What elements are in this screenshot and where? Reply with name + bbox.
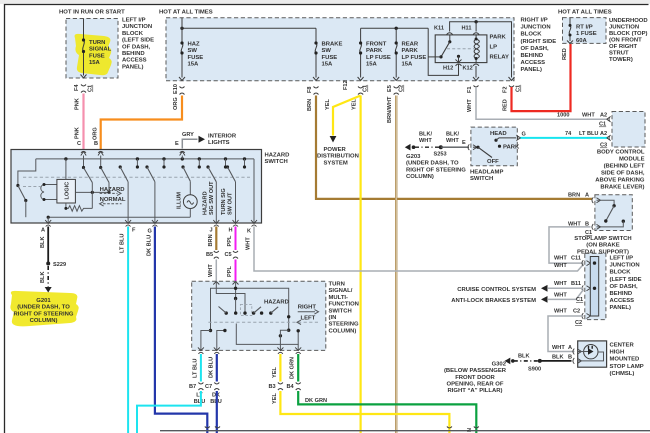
RT I/P 1 fuse 60A xyxy=(569,18,571,26)
svg-text:A: A xyxy=(568,345,572,351)
svg-text:N: N xyxy=(467,428,473,432)
wire LT BLU from B7 to bottom edge xyxy=(137,391,201,433)
wire YEL from B3 right and down to bottom edge xyxy=(280,391,449,433)
PPL internal tap xyxy=(235,281,237,298)
svg-text:A2: A2 xyxy=(600,131,607,137)
connector F2 / C1 xyxy=(509,86,514,88)
relay armature link xyxy=(428,56,441,58)
relay terminal H11 xyxy=(473,33,479,35)
svg-text:C3: C3 xyxy=(600,143,607,149)
junction block pin C2 connector xyxy=(582,313,591,319)
wire ORG from E10 to hazard switch pin B xyxy=(101,96,182,150)
hazard switch pin J xyxy=(213,220,219,227)
svg-text:LEFT: LEFT xyxy=(301,315,316,321)
arrow to cruise control system xyxy=(541,285,548,292)
connector B5 xyxy=(214,251,219,259)
svg-text:RIGHT OF STEERING: RIGHT OF STEERING xyxy=(406,167,466,173)
svg-text:FUNCTION: FUNCTION xyxy=(329,302,359,308)
resistor xyxy=(66,203,92,211)
arrow to interior lights xyxy=(199,136,206,143)
svg-text:BODY CONTROL: BODY CONTROL xyxy=(597,150,645,156)
svg-text:SIG SW OUT: SIG SW OUT xyxy=(209,181,215,215)
svg-text:TURN: TURN xyxy=(89,40,105,46)
svg-text:FUSE: FUSE xyxy=(188,55,204,61)
svg-text:RED: RED xyxy=(562,48,568,60)
svg-text:G302: G302 xyxy=(492,361,507,367)
headlamp switch pin G connector xyxy=(517,135,521,141)
svg-text:COLUMN): COLUMN) xyxy=(30,318,58,324)
svg-text:BLK: BLK xyxy=(518,354,530,360)
svg-text:LT BLU: LT BLU xyxy=(120,234,126,253)
hazard switch pin A xyxy=(45,220,51,227)
svg-text:MULTI-: MULTI- xyxy=(329,295,349,301)
svg-text:DISTRIBUTION: DISTRIBUTION xyxy=(317,154,359,160)
node H11 feed xyxy=(474,20,477,23)
svg-text:C: C xyxy=(77,141,81,147)
wire YEL main run down page xyxy=(360,96,362,433)
pin arrow RT fuse out xyxy=(567,41,573,44)
park lp relay box xyxy=(435,35,487,63)
switched park lamp feed rail xyxy=(361,27,429,29)
svg-text:B: B xyxy=(94,141,98,147)
underhood junction block dashed box xyxy=(563,18,607,44)
svg-text:C2: C2 xyxy=(573,309,580,315)
svg-text:G: G xyxy=(148,229,152,235)
svg-text:C1: C1 xyxy=(599,122,606,128)
svg-text:F2: F2 xyxy=(503,86,509,93)
DK GRN pin internal xyxy=(297,344,299,350)
svg-text:TURN SIG: TURN SIG xyxy=(221,188,227,215)
pin arrow rear park fuse out xyxy=(393,77,399,81)
wire BLK from CHMSL B to S900 xyxy=(540,360,572,362)
svg-text:OF DASH,: OF DASH, xyxy=(122,44,151,50)
svg-text:ILLUM: ILLUM xyxy=(177,192,183,209)
connector F1 xyxy=(474,86,479,88)
page margin strip xyxy=(0,0,650,4)
svg-text:ACCESS: ACCESS xyxy=(122,58,147,64)
svg-text:1 FUSE: 1 FUSE xyxy=(576,31,597,37)
svg-text:PARK: PARK xyxy=(402,48,419,54)
svg-text:74: 74 xyxy=(565,131,572,137)
hazard switch pin H xyxy=(233,220,239,227)
pin G switch contact (arm and fixed stub) xyxy=(145,165,148,168)
svg-text:15A: 15A xyxy=(366,62,378,68)
connector E10 xyxy=(180,87,185,95)
internal bus bar xyxy=(590,257,598,317)
svg-text:FUSE: FUSE xyxy=(322,55,338,61)
svg-text:LIGHTS: LIGHTS xyxy=(208,140,230,146)
WHT internal route xyxy=(216,281,245,313)
svg-text:STOP LAMP: STOP LAMP xyxy=(610,364,644,370)
splice S253 xyxy=(439,145,443,149)
svg-text:ACCESS: ACCESS xyxy=(521,60,546,66)
svg-text:BRAKE: BRAKE xyxy=(322,42,343,48)
wire GRY from hazard switch pin E to interior lights xyxy=(182,139,197,148)
hazard switch pin B xyxy=(98,151,103,155)
svg-text:C1: C1 xyxy=(516,85,522,92)
hazard switch pin E xyxy=(180,151,185,155)
svg-text:LOGIC: LOGIC xyxy=(65,182,71,200)
svg-text:C11: C11 xyxy=(571,256,581,262)
svg-text:DK GRN: DK GRN xyxy=(305,398,327,404)
relay actuator dashed line xyxy=(447,48,474,50)
svg-text:PNK: PNK xyxy=(75,127,81,139)
svg-text:OF DASH,: OF DASH, xyxy=(610,284,639,290)
wire BLK/WHT ground lead G203 to S253 (dash-dot) xyxy=(415,146,441,148)
wire WHT from B5 to turn signal switch xyxy=(215,260,217,282)
svg-text:OF DASH,: OF DASH, xyxy=(521,46,550,52)
svg-text:JUNCTION: JUNCTION xyxy=(609,25,639,31)
pin F switch contact (arm and fixed stub) xyxy=(119,165,122,168)
svg-text:(LEFT SIDE: (LEFT SIDE xyxy=(122,38,154,44)
headlamp switch common contact xyxy=(476,146,479,149)
svg-text:PARK: PARK xyxy=(490,35,507,41)
svg-text:RIGHT OF STEERING: RIGHT OF STEERING xyxy=(14,311,74,317)
turn signal switch pin DK BLU xyxy=(214,347,220,353)
svg-text:PPL: PPL xyxy=(227,235,233,246)
headlamp switch pin E connector xyxy=(468,144,477,150)
svg-text:G: G xyxy=(522,132,526,138)
svg-text:WHT: WHT xyxy=(246,237,252,250)
ILLUM lamp contact arm xyxy=(181,165,184,168)
relay coil xyxy=(475,35,477,63)
wire WHT from stoplamp B to junction block C11 xyxy=(549,227,591,263)
BRAKE SW FUSE 15A xyxy=(315,43,317,53)
svg-text:BLK: BLK xyxy=(552,355,564,361)
turn signal fuse 15A xyxy=(83,19,85,76)
connector C5 xyxy=(233,251,238,259)
connector at bottom DK BLU (right) xyxy=(215,427,220,429)
svg-text:(IN: (IN xyxy=(329,315,337,321)
svg-text:RELAY: RELAY xyxy=(490,55,509,61)
svg-text:BLOCK: BLOCK xyxy=(122,31,144,37)
svg-text:PANEL): PANEL) xyxy=(610,305,632,311)
wire BRN from F8 to stoplamp switch pin A xyxy=(316,96,592,199)
svg-text:ABOVE PARKING: ABOVE PARKING xyxy=(595,178,645,184)
highlight on G201 ground label xyxy=(10,291,78,327)
svg-text:UNDERHOOD: UNDERHOOD xyxy=(609,18,648,24)
turn signal / multi-function switch dashed box xyxy=(192,281,326,350)
svg-text:WHT: WHT xyxy=(208,264,214,277)
relay pole contact to H12 xyxy=(457,55,460,58)
svg-text:REAR: REAR xyxy=(402,42,419,48)
wire PPL from C5 to turn signal switch xyxy=(235,260,237,282)
svg-text:STRUT: STRUT xyxy=(609,51,629,57)
connector B4 xyxy=(296,383,301,391)
bottom internal link xyxy=(236,324,298,345)
wire YEL branch to power distribution xyxy=(333,96,361,136)
LOGIC module box xyxy=(57,179,76,203)
ground G201 symbol xyxy=(45,287,52,293)
FRONT PARK LP FUSE 15A xyxy=(360,43,362,53)
svg-text:WHT: WHT xyxy=(554,281,567,287)
coil mechanical dashed link xyxy=(23,186,41,188)
svg-text:CENTER: CENTER xyxy=(610,343,635,349)
svg-text:LP: LP xyxy=(490,45,498,51)
wire LT BLU from pin F down page xyxy=(127,227,129,433)
CHMSL pin A connector xyxy=(573,349,582,355)
svg-text:SW OUT: SW OUT xyxy=(228,192,234,215)
wire WHT circuit 1000 from F1 to BCM xyxy=(476,87,608,119)
svg-text:ACCESS: ACCESS xyxy=(610,298,635,304)
left switch contact of hazard switch xyxy=(18,159,36,186)
svg-text:ORG: ORG xyxy=(93,127,99,140)
svg-text:B7: B7 xyxy=(189,384,196,390)
svg-text:YEL: YEL xyxy=(272,367,278,378)
headlamp switch arm to OFF xyxy=(478,147,492,157)
relay terminal K11 xyxy=(447,33,453,35)
contact arms xyxy=(219,307,227,314)
svg-text:BEHIND: BEHIND xyxy=(122,51,145,57)
headlamp switch dashed box xyxy=(471,127,517,166)
wire WHT from B11 to cruise control system xyxy=(548,287,584,289)
svg-text:WHT: WHT xyxy=(554,309,567,315)
svg-text:(ON BRAKE: (ON BRAKE xyxy=(586,243,619,249)
svg-text:HOT IN RUN OR START: HOT IN RUN OR START xyxy=(59,10,125,16)
relay switch arm xyxy=(449,35,451,42)
svg-text:BRAKE LEVER): BRAKE LEVER) xyxy=(600,185,644,191)
svg-text:F4: F4 xyxy=(74,84,80,91)
YEL pin internal xyxy=(280,330,288,350)
pin C contact and arm xyxy=(83,156,85,168)
svg-text:H11: H11 xyxy=(462,26,472,32)
svg-text:BRN/WHT: BRN/WHT xyxy=(387,96,393,123)
svg-text:COLUMN): COLUMN) xyxy=(329,328,357,334)
svg-text:E: E xyxy=(175,141,179,147)
svg-text:DK GRN: DK GRN xyxy=(290,357,296,379)
svg-text:FUSE: FUSE xyxy=(89,53,105,59)
pin K feed from rail xyxy=(253,159,255,223)
svg-text:LEFT I/P: LEFT I/P xyxy=(122,18,146,24)
svg-text:STOPLAMP SWITCH: STOPLAMP SWITCH xyxy=(574,236,631,242)
svg-text:LT: LT xyxy=(196,393,203,399)
LOGIC feed from rail xyxy=(65,159,67,180)
svg-text:C1: C1 xyxy=(88,85,94,92)
REAR PARK LP FUSE 15A xyxy=(395,43,397,53)
svg-text:F: F xyxy=(132,228,136,234)
svg-text:WHT: WHT xyxy=(467,99,473,112)
svg-text:B5: B5 xyxy=(206,252,213,258)
pin J contact arm (hazard sig sw out) xyxy=(206,165,209,168)
splice S229 xyxy=(46,262,50,266)
svg-text:TOWER): TOWER) xyxy=(609,57,633,63)
feed stub to HAZ SW fuse xyxy=(181,18,183,43)
wire BLK to ground G302 (dash-dot) xyxy=(514,360,538,362)
hot bus rail inside junction block xyxy=(182,27,316,29)
svg-text:COLUMN): COLUMN) xyxy=(406,174,434,180)
svg-text:15A: 15A xyxy=(402,62,414,68)
svg-text:LEFT I/P: LEFT I/P xyxy=(610,256,634,262)
svg-text:TURN: TURN xyxy=(329,282,345,288)
turn signal switch pin YEL xyxy=(277,347,283,353)
svg-text:60A: 60A xyxy=(576,38,588,44)
wire PNK from F4 to hazard switch pin C xyxy=(82,94,84,150)
hazard switch box xyxy=(11,150,262,224)
pin arrow at box bottom (fuse 1 out) xyxy=(81,75,87,79)
svg-text:C1: C1 xyxy=(363,85,369,92)
stoplamp switch dashed box xyxy=(595,195,632,231)
hazard switch pin G xyxy=(152,220,158,227)
svg-text:E: E xyxy=(462,140,466,146)
pin B contact and arm xyxy=(100,156,102,168)
lamp assembly cut off at bottom edge xyxy=(160,430,650,432)
svg-text:HAZ: HAZ xyxy=(188,42,201,48)
headlamp HEAD contact xyxy=(494,139,497,142)
connector F8 xyxy=(314,87,319,95)
svg-text:F1: F1 xyxy=(467,86,473,93)
svg-text:E5: E5 xyxy=(387,85,393,92)
pin arrow F2 out of junction block xyxy=(509,77,515,81)
body control module dashed box xyxy=(612,112,645,148)
mechanical coupling dashed line xyxy=(23,176,250,178)
hazard flasher coil xyxy=(41,185,58,200)
svg-text:POWER: POWER xyxy=(324,147,347,153)
hazard contact dashed gang box xyxy=(240,304,251,315)
rear park fuse feed stub xyxy=(395,28,397,43)
svg-text:15A: 15A xyxy=(89,60,101,66)
svg-text:J: J xyxy=(210,228,213,234)
svg-text:K11: K11 xyxy=(434,26,444,32)
svg-text:JUNCTION: JUNCTION xyxy=(610,263,640,269)
svg-text:A2: A2 xyxy=(600,113,607,119)
relay terminal K12 xyxy=(473,64,479,66)
svg-text:FRONT DOOR: FRONT DOOR xyxy=(455,375,495,381)
svg-text:F12: F12 xyxy=(343,80,349,90)
svg-text:A: A xyxy=(41,228,45,234)
svg-text:HAZARD: HAZARD xyxy=(265,153,290,159)
svg-text:OPENING, REAR OF: OPENING, REAR OF xyxy=(447,382,504,388)
svg-text:G201: G201 xyxy=(36,298,51,304)
svg-text:CRUISE CONTROL SYSTEM: CRUISE CONTROL SYSTEM xyxy=(457,287,536,293)
svg-text:BEHIND: BEHIND xyxy=(521,53,544,59)
CHMSL pin B connector xyxy=(573,358,582,364)
LT BLU pin internal xyxy=(201,331,211,351)
connector B7 xyxy=(198,383,203,391)
svg-text:JUNCTION: JUNCTION xyxy=(122,24,152,30)
pin arrows into turn signal switch (WHT, PPL) xyxy=(213,282,238,285)
hazard switch internal feed rail xyxy=(36,158,254,160)
svg-text:BRN: BRN xyxy=(568,193,580,199)
internal rail of turn signal switch xyxy=(211,288,289,330)
wire BLK from pin A to S229 xyxy=(47,227,49,264)
svg-text:SIGNAL: SIGNAL xyxy=(89,47,112,53)
front park fuse feed stub xyxy=(360,28,362,43)
svg-text:C2: C2 xyxy=(575,320,582,326)
connector at bottom DK BLU (left) xyxy=(205,427,210,429)
pin arrow brake fuse out xyxy=(313,77,319,81)
svg-text:BRN: BRN xyxy=(307,99,313,111)
svg-text:(UNDER DASH, TO: (UNDER DASH, TO xyxy=(17,305,70,311)
hazard switch pin K xyxy=(251,220,257,227)
svg-text:BLK: BLK xyxy=(40,237,46,249)
pin arrow front park fuse out xyxy=(358,77,364,81)
wire PPL from pin H to connector C5 xyxy=(235,227,237,251)
svg-text:(ON FRONT: (ON FRONT xyxy=(609,38,642,44)
turn signal switch pin LT BLU xyxy=(198,347,204,353)
stoplamp switch pin A connector xyxy=(592,197,601,203)
connector at bottom DK GRN xyxy=(474,427,479,429)
svg-text:PNK: PNK xyxy=(75,98,81,110)
ILLUM lamp xyxy=(189,181,191,194)
pin E stub to rail xyxy=(181,156,183,159)
svg-text:BLOCK (TOP): BLOCK (TOP) xyxy=(609,31,648,37)
BCM connector A2 C3 xyxy=(607,135,611,141)
svg-text:HOT AT ALL TIMES: HOT AT ALL TIMES xyxy=(558,10,612,16)
svg-text:BLK/: BLK/ xyxy=(446,131,459,137)
wire DK GRN from B4 right and down to bottom edge xyxy=(298,391,476,433)
svg-text:15A: 15A xyxy=(322,62,334,68)
svg-text:HIGH: HIGH xyxy=(610,350,625,356)
svg-text:RED: RED xyxy=(503,99,509,111)
BCM connector A2 C1 xyxy=(607,116,611,122)
wire BRN/WHT run down page xyxy=(395,96,397,433)
arrow to power distribution system xyxy=(330,136,337,143)
svg-text:C2: C2 xyxy=(399,85,405,92)
svg-text:LP FUSE: LP FUSE xyxy=(402,55,427,61)
svg-text:OFF: OFF xyxy=(487,159,499,165)
svg-text:PANEL): PANEL) xyxy=(122,64,144,70)
svg-text:LP FUSE: LP FUSE xyxy=(366,55,391,61)
wire WHT from C2 to CHMSL pin A xyxy=(548,316,584,352)
svg-text:HOT AT ALL TIMES: HOT AT ALL TIMES xyxy=(159,10,213,16)
svg-text:RIGHT: RIGHT xyxy=(298,305,317,311)
CHMSL lamp symbol xyxy=(584,345,598,359)
svg-text:YEL: YEL xyxy=(325,99,331,110)
svg-text:WHT: WHT xyxy=(554,293,567,299)
brake sw fuse feed stub xyxy=(315,28,317,43)
svg-text:RIGHT “A” PILLAR): RIGHT “A” PILLAR) xyxy=(448,388,503,394)
wire BLK/WHT from S253 to headlamp switch pin E xyxy=(441,146,469,148)
relay K12 wire to F1 xyxy=(475,66,477,78)
svg-text:BLK/: BLK/ xyxy=(419,131,432,137)
svg-text:C7: C7 xyxy=(205,384,212,390)
svg-text:SWITCH: SWITCH xyxy=(470,176,493,182)
svg-text:JUNCTION: JUNCTION xyxy=(521,25,551,31)
wire YEL from switch to connector B3 xyxy=(279,354,281,382)
hazard switch pin C xyxy=(81,151,86,155)
wire LT BLU from switch to connector B7 xyxy=(200,354,202,382)
svg-text:MOUNTED: MOUNTED xyxy=(610,357,640,363)
svg-text:BLU: BLU xyxy=(194,399,206,405)
svg-text:PARK: PARK xyxy=(366,48,383,54)
center contact row xyxy=(225,311,228,314)
stoplamp switch arm xyxy=(606,206,614,221)
stoplamp switch pin B connector xyxy=(592,224,601,230)
connector at bottom YEL xyxy=(447,427,452,429)
left I/P junction block (lower) dashed box xyxy=(585,253,606,319)
svg-text:WHT: WHT xyxy=(554,256,567,262)
wire DK BLU from switch to connector C7 xyxy=(216,354,218,382)
left I/P junction block (top) dashed box xyxy=(66,19,118,79)
svg-text:DK BLU: DK BLU xyxy=(209,357,215,378)
pin arrow K12 out of junction block xyxy=(473,77,479,81)
svg-text:(UNDER DASH, TO: (UNDER DASH, TO xyxy=(406,161,459,167)
svg-text:K12: K12 xyxy=(463,66,473,72)
lamp feed line A xyxy=(578,351,588,353)
svg-text:S253: S253 xyxy=(434,152,447,158)
relay terminal H12 xyxy=(456,64,462,66)
junction block pin C11 connector xyxy=(582,260,591,266)
svg-text:SWITCH: SWITCH xyxy=(265,159,288,165)
svg-text:HEAD: HEAD xyxy=(490,131,507,137)
svg-text:LT BLU: LT BLU xyxy=(193,359,199,378)
svg-text:LT BLU: LT BLU xyxy=(579,131,598,137)
svg-text:YEL: YEL xyxy=(352,99,358,110)
wire DK BLU from pin G down then to bottom connector xyxy=(155,227,207,433)
connector B3 xyxy=(278,383,283,391)
stoplamp switch internal: pin A to upper contact xyxy=(597,200,615,206)
svg-text:B3: B3 xyxy=(269,384,276,390)
